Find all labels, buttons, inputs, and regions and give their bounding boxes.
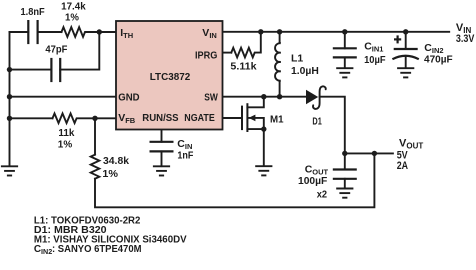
svg-text:x2: x2 [317,189,327,201]
svg-text:11k: 11k [58,127,74,139]
svg-text:1%: 1% [58,139,73,151]
svg-text:1%: 1% [65,11,79,23]
svg-text:2A: 2A [397,160,408,172]
svg-text:1.0µH: 1.0µH [291,65,319,77]
svg-text:IPRG: IPRG [195,49,217,61]
svg-text:SW: SW [204,91,218,103]
svg-text:1.8nF: 1.8nF [21,6,46,18]
svg-text:34.8k: 34.8k [103,155,129,167]
svg-text:IN2: IN2 [41,247,52,256]
svg-text:10µF: 10µF [364,54,386,66]
svg-text:CIN1: CIN1 [364,41,383,54]
svg-text:M1: M1 [270,113,284,125]
svg-text:RUN/SS: RUN/SS [142,112,178,124]
svg-text:5.11k: 5.11k [230,61,256,73]
svg-text:GND: GND [118,91,140,103]
svg-text:3.3V: 3.3V [456,33,475,45]
svg-text:470µF: 470µF [424,53,453,65]
svg-text:100µF: 100µF [298,175,328,187]
svg-text:NGATE: NGATE [184,112,215,124]
svg-text:1nF: 1nF [177,150,193,162]
svg-text:LTC3872: LTC3872 [150,71,191,83]
svg-text:47pF: 47pF [45,44,68,56]
svg-text:1%: 1% [102,168,118,180]
svg-text:: SANYO 6TPE470M: : SANYO 6TPE470M [52,244,142,255]
svg-text:L1: L1 [291,52,303,64]
svg-text:D1: D1 [312,115,322,127]
